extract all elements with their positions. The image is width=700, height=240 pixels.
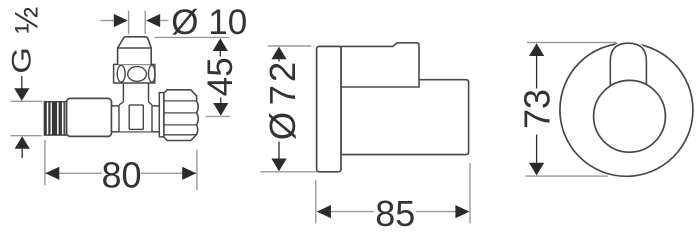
svg-text:85: 85 xyxy=(375,193,415,234)
svg-text:45: 45 xyxy=(201,57,240,96)
valve main body (lower cylinder) xyxy=(341,80,469,155)
handle cap xyxy=(118,37,152,65)
valve bonnet and stem xyxy=(119,83,152,132)
dimension D72 bottom extension tick xyxy=(260,171,316,173)
handle inner circle xyxy=(594,80,666,152)
svg-text:73: 73 xyxy=(517,89,558,129)
valve sleeve (upper cylinder) xyxy=(341,43,419,87)
escutcheon outer circle xyxy=(560,43,693,176)
svg-text:Ø 10: Ø 10 xyxy=(171,3,247,42)
handle grip with finger recesses xyxy=(114,64,156,83)
outlet pipe section xyxy=(112,106,162,132)
svg-text:G: G xyxy=(6,47,37,74)
dimension 85 right extension line xyxy=(469,163,471,223)
dimension 80 left arrow xyxy=(45,167,59,180)
wall escutcheon plate xyxy=(317,46,341,171)
handle tab xyxy=(610,43,646,86)
dimension 73 bottom extension tick xyxy=(525,175,608,177)
dimension 80 right arrow xyxy=(182,167,196,180)
dimension G1/2 down arrow xyxy=(14,76,29,101)
dimension 73 up arrow xyxy=(529,43,544,56)
dimension 45 top extension tick xyxy=(154,36,229,38)
dimension 45 bottom arrow xyxy=(220,98,222,104)
dimension 45 top arrow xyxy=(213,38,228,51)
dimension 45 bottom extension tick xyxy=(206,115,230,117)
main body cylinder xyxy=(67,98,112,136)
handle tab (eraser fill) xyxy=(609,41,648,86)
dimension D10 left leader and arrow xyxy=(101,20,115,22)
dimension 85 left arrow xyxy=(317,205,331,218)
dimension G1/2 label (rotated) xyxy=(6,7,44,74)
threaded tail pipe G1/2 xyxy=(44,102,66,135)
dimension 85 line left segment xyxy=(317,211,374,213)
dimension D72 up arrow xyxy=(271,47,286,60)
dimension 80 line left segment xyxy=(45,172,102,174)
dimension 85 right arrow xyxy=(455,205,469,218)
dimension G1/2 upper extension tick xyxy=(11,100,43,102)
dimension G1/2 up arrow xyxy=(15,136,30,158)
svg-text:½: ½ xyxy=(9,7,45,34)
dimension 80 left extension line xyxy=(44,140,46,185)
svg-text:Ø: Ø xyxy=(262,112,303,140)
dimension D10 extension lines xyxy=(128,11,130,35)
dimension 85 line right segment xyxy=(416,211,469,213)
dimension 73 top extension tick xyxy=(527,42,617,44)
dimension 80 line right segment xyxy=(141,172,196,174)
dimension D72 top extension tick xyxy=(268,45,312,47)
compression nut flange xyxy=(159,93,164,137)
svg-text:72: 72 xyxy=(262,59,303,106)
svg-text:80: 80 xyxy=(101,154,141,195)
dimension 73 down arrow xyxy=(536,135,538,163)
dimension D72 down arrow xyxy=(278,142,280,159)
dimension G1/2 lower extension tick xyxy=(10,135,42,137)
dimension 85 left extension line xyxy=(315,180,317,223)
knurled compression nut xyxy=(164,90,198,141)
dimension D10 right leader and arrow xyxy=(146,14,160,27)
handle cap shoulder line xyxy=(118,47,152,49)
dimension 80 right extension line xyxy=(196,150,198,190)
